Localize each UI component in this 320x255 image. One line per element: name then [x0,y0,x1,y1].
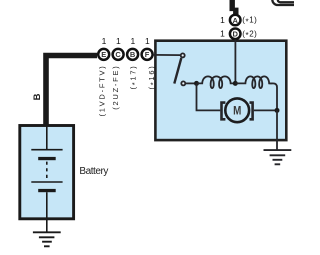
switch contact (top) [181,53,185,57]
battery cell 1 negative plate [38,157,56,160]
svg-text:D: D [232,30,238,39]
wire stub (thick) from top to connector A [230,0,239,15]
svg-text:(*1): (*1) [242,16,257,27]
junction J3 [275,108,280,113]
ground G2 (battery) [33,232,61,246]
svg-text:F: F [145,50,150,59]
svg-text:1: 1 [220,15,225,25]
battery dashed link [46,162,48,179]
motor M1 [225,98,249,122]
wire motor right to node J3 [254,109,277,111]
ground G1 (motor) [264,150,292,164]
motor right brush [250,103,253,120]
svg-text:(*2): (*2) [242,30,257,41]
callout inner bar (top right) [278,0,320,2]
svg-text:B: B [130,50,136,59]
switch contact (bottom) [181,81,185,85]
svg-text:(*17): (*17) [128,65,139,90]
svg-text:E: E [101,50,106,59]
wire F to switch [153,54,181,56]
svg-text:A: A [232,16,238,25]
wire from D down into box [234,39,236,83]
connector C [113,49,124,60]
svg-text:C: C [115,50,121,59]
junction J1 [194,81,199,86]
wire coil to right rail [269,83,277,110]
svg-text:1: 1 [131,36,136,46]
svg-text:(1VD-FTV): (1VD-FTV) [98,65,107,117]
field coil L1 [197,76,236,88]
motor assembly box U1 [155,41,286,140]
battery box [20,126,74,219]
switch blade SW1 [174,58,181,84]
battery cell 2 positive plate [31,181,62,183]
wire battery to ground [46,219,48,233]
wire J3 down to ground [276,110,278,150]
motor left brush [222,103,226,120]
svg-text:1: 1 [145,36,150,46]
connector B [127,49,138,60]
junction J2 (center tap) [233,81,238,86]
svg-text:Battery: Battery [79,166,108,177]
wire switch to node J1 [185,82,196,84]
svg-text:M: M [233,105,241,118]
connector A [230,15,241,26]
battery cell 2 negative plate [38,189,56,192]
field coil L2 [235,76,272,88]
callout box corner (top right) [272,0,317,5]
battery top plate lead [46,126,48,150]
wire J1 down to motor left [197,83,221,110]
svg-text:1: 1 [220,29,225,39]
svg-text:B: B [32,93,43,100]
svg-text:(2UZ-FE): (2UZ-FE) [111,65,120,110]
svg-text:1: 1 [116,36,121,46]
wire B (thick battery positive wire) [43,53,97,126]
connector E [98,49,109,60]
battery cell 1 positive plate [31,149,62,151]
svg-text:1: 1 [102,36,107,46]
connector D [230,29,241,40]
connector F [142,49,153,60]
battery bottom lead [46,192,48,219]
